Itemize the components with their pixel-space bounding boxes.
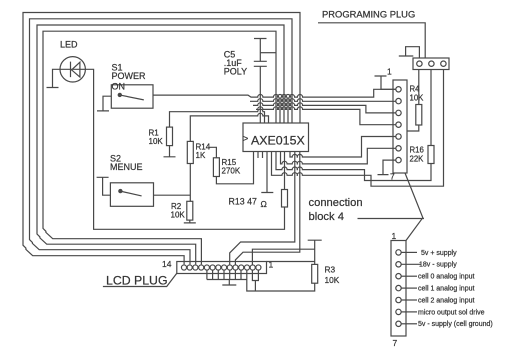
wire chip pin cascade to header pin5 — [290, 137, 396, 158]
resistor R15 — [213, 158, 219, 177]
connector J4 pin 6 — [396, 309, 401, 314]
svg-text:PROGRAMING PLUG: PROGRAMING PLUG — [322, 9, 415, 20]
wire header pin7 ground stub — [378, 160, 396, 175]
svg-text:ON: ON — [112, 82, 126, 92]
svg-text:1: 1 — [387, 67, 392, 77]
svg-text:block 4: block 4 — [309, 211, 344, 223]
wire block pin 2 — [401, 263, 421, 265]
connector J4 pin 2 — [396, 262, 401, 267]
svg-text:cell 1 analog input: cell 1 analog input — [418, 286, 474, 293]
svg-text:LCD PLUG: LCD PLUG — [106, 274, 168, 288]
wire chip pin to R13 — [284, 152, 286, 190]
svg-text:10K: 10K — [410, 94, 425, 103]
connector J4 pin 5 — [396, 297, 401, 302]
switch S2 — [110, 183, 153, 207]
wire plug ground stub — [399, 47, 420, 58]
wire R14 to R2 — [189, 164, 191, 202]
connector J2 box — [393, 80, 407, 173]
svg-text:14: 14 — [162, 259, 172, 269]
LED D1 — [60, 57, 85, 82]
wire chip pin cascade to prog line — [272, 70, 444, 187]
svg-text:18v - supply: 18v - supply — [419, 262, 457, 269]
svg-text:LED: LED — [60, 40, 78, 50]
wire header pin1 supply stub — [375, 76, 396, 89]
connector J2 pin 3 — [396, 110, 401, 115]
wire border bus 3 — [37, 25, 284, 264]
svg-text:POLY: POLY — [224, 67, 247, 77]
svg-text:POWER: POWER — [112, 71, 147, 81]
resistor R3 — [312, 264, 318, 283]
resistor R16 — [428, 146, 434, 164]
wire R1 top to chip — [170, 109, 265, 127]
wire S2 left stub — [97, 177, 111, 195]
wire bus row2 to header pin2 — [250, 99, 396, 102]
wire LCD ground pins — [207, 270, 247, 280]
resistor R14 — [187, 141, 193, 163]
wire LCD ground stub — [222, 280, 236, 286]
connector J4 pin 3 — [396, 274, 401, 279]
svg-text:R16: R16 — [410, 146, 424, 155]
connector J1 LCD plug box — [177, 262, 267, 274]
wire block label underline — [358, 218, 425, 220]
svg-text:5v - supply (cell ground): 5v - supply (cell ground) — [418, 321, 493, 328]
wire leader to connection block — [405, 173, 423, 241]
wire R4 top — [418, 70, 420, 105]
resistor R1 — [167, 127, 173, 146]
connector J4 pin 1 — [396, 250, 401, 255]
wire R4 bottom — [407, 125, 419, 131]
connector J2 pin 2 — [396, 98, 401, 103]
svg-text:5v + supply: 5v + supply — [421, 250, 457, 257]
wire chip pin to stub T — [261, 152, 273, 193]
wire R15 bottom to chip pin — [216, 152, 253, 184]
svg-text:7: 7 — [393, 338, 398, 348]
wire chip pin cascade to R16 — [276, 152, 431, 181]
wire chip pin to LCD pin9 — [230, 152, 295, 265]
svg-text:connection: connection — [309, 197, 363, 209]
wire R3 supply stub — [308, 240, 322, 264]
wire border bus 4 — [43, 31, 276, 264]
wire block pin 7 — [401, 323, 417, 325]
svg-text:10K: 10K — [325, 275, 340, 285]
svg-text:7: 7 — [390, 172, 395, 182]
wire border bus 1 — [23, 13, 300, 265]
wire LCD box to R3 — [267, 261, 315, 263]
connector J4 pin 4 — [396, 285, 401, 290]
op-amp U1 AXE015X — [243, 123, 309, 152]
svg-text:R13 47: R13 47 — [229, 197, 257, 207]
connector J2 pin 5 — [396, 134, 401, 139]
wire LED anode to R13 net — [85, 69, 284, 229]
svg-text:22K: 22K — [410, 155, 425, 164]
svg-text:Ω: Ω — [261, 199, 267, 209]
svg-text:MENUE: MENUE — [110, 162, 143, 172]
wire LCD label underline — [103, 273, 177, 286]
wire chip pin cascade to header pin6 — [281, 148, 396, 164]
capacitor C5 — [254, 39, 267, 67]
wire block pin 5 — [401, 299, 417, 301]
connector J2 pin 7 — [396, 157, 401, 162]
resistor R2 — [187, 201, 193, 220]
wire S1 left stub — [97, 96, 111, 111]
svg-text:10K: 10K — [149, 137, 164, 146]
wire C5 to chip — [259, 66, 261, 123]
svg-text:cell 0 analog input: cell 0 analog input — [418, 274, 474, 281]
wire S1 to header pin1 (row1) — [153, 89, 396, 97]
wire R16 top — [430, 70, 432, 146]
wire stub chip pin top a — [279, 97, 281, 123]
wire block pin 4 — [401, 287, 417, 289]
wire block pin 6 — [401, 311, 417, 313]
wire chip pin stub a — [257, 152, 259, 159]
wire chip pin to LCD pin10 — [235, 152, 299, 265]
wire R1 ground stub — [164, 146, 176, 157]
wire LCD pin13 to R3 net — [252, 249, 314, 265]
svg-text:cell 2 analog input: cell 2 analog input — [418, 297, 474, 304]
wire C5 right lead — [260, 52, 276, 54]
resistor R4 — [416, 105, 422, 126]
svg-text:R3: R3 — [325, 265, 336, 275]
svg-text:micro output sol drive: micro output sol drive — [418, 309, 485, 316]
wire block pin 3 — [401, 275, 417, 277]
connector J1 pins — [181, 265, 260, 270]
wire R14 top to chip — [190, 113, 268, 141]
connector J2 pin 1 — [396, 87, 401, 92]
connector J4 connection block — [391, 241, 406, 337]
svg-text:270K: 270K — [222, 167, 241, 176]
wire R15 top to R14 net — [209, 147, 216, 158]
wire block pin 1 — [401, 251, 417, 253]
wire LCD right pins link — [252, 270, 258, 291]
wire plug leader — [318, 23, 425, 58]
svg-text:1K: 1K — [196, 151, 206, 160]
wire stub chip pin top b — [287, 97, 289, 123]
svg-text:10K: 10K — [171, 211, 186, 220]
svg-text:>: > — [243, 134, 248, 144]
wire bus row4 to header pin4 — [256, 107, 396, 125]
switch S1 — [111, 85, 153, 108]
connector J2 pin 6 — [396, 146, 401, 151]
svg-text:1: 1 — [392, 231, 397, 241]
svg-text:AXE015X: AXE015X — [251, 134, 305, 148]
connector J3 programming plug — [413, 58, 449, 70]
wire border bus 2 — [30, 19, 293, 265]
connector J2 pin 4 — [396, 122, 401, 127]
wire LCD pin12 to R3 bottom — [247, 270, 315, 291]
connector J4 pin 7 — [396, 321, 401, 326]
resistor R13 — [282, 190, 288, 208]
wire bus row3 to header pin3 — [253, 103, 396, 113]
wire R2 ground stub — [184, 220, 196, 223]
wire chip pin stub b — [262, 152, 264, 159]
wire S2 to R14/R2 junction — [154, 194, 191, 196]
wire LED cathode to ground stub — [47, 69, 61, 87]
